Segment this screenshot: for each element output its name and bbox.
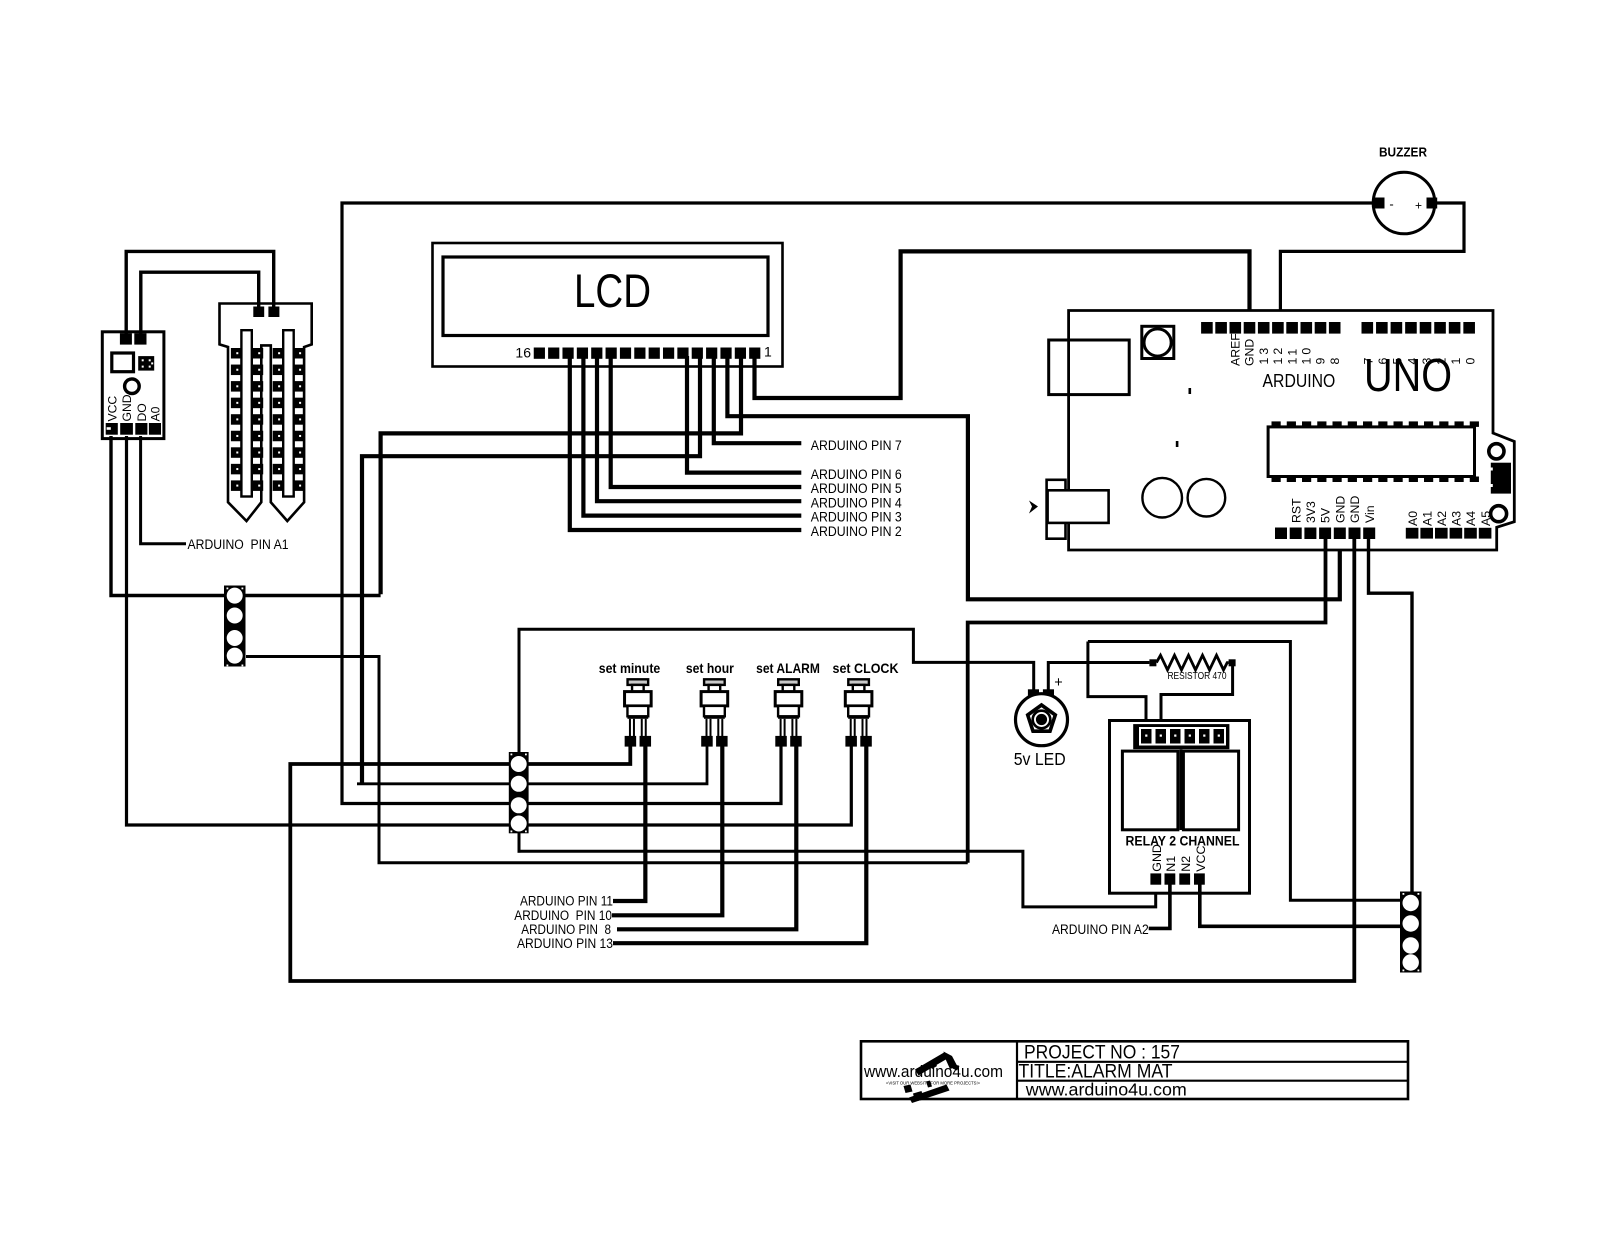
mounting hole top — [1489, 444, 1504, 459]
wire LCD pin6 to ARDUINO PIN 6 label — [687, 356, 801, 473]
pin strip S2 — [509, 752, 529, 833]
board marks — [1176, 388, 1191, 447]
LCD module — [433, 243, 783, 367]
push button SW4 set CLOCK — [833, 660, 899, 747]
wire buzzer minus to set ALARM via strip S2 row3 — [342, 203, 1374, 804]
wire top rail to connector S3 pin1 — [1088, 642, 1401, 901]
LED D1 (5v LED) — [1014, 675, 1068, 769]
wire buzzer plus to Arduino pin 12 — [1280, 203, 1464, 323]
svg-text:16: 16 — [515, 345, 531, 361]
wire buttons box to LED minus — [519, 629, 1034, 852]
digital header 7..0 — [1362, 322, 1478, 365]
wire module VCC to strip S1 row1 / 5V net — [111, 436, 381, 596]
svg-text:13: 13 — [1257, 345, 1271, 365]
svg-text:A4: A4 — [1464, 511, 1478, 526]
svg-text:ARDUINO PIN 8: ARDUINO PIN 8 — [521, 922, 611, 937]
svg-text:A0: A0 — [1406, 511, 1420, 526]
svg-text:ARDUINO PIN 10: ARDUINO PIN 10 — [514, 908, 612, 923]
svg-text:N1: N1 — [1164, 856, 1178, 872]
svg-text:8: 8 — [1328, 358, 1342, 365]
mounting hole bottom — [1491, 506, 1507, 522]
svg-text:«VISIT OUR WEBSITE FOR MORE PR: «VISIT OUR WEBSITE FOR MORE PROJECTS!» — [886, 1080, 981, 1085]
wire Arduino 5V down-left — [968, 538, 1326, 863]
svg-text:11: 11 — [1285, 346, 1299, 365]
svg-text:Vin: Vin — [1363, 505, 1377, 523]
svg-text:ARDUINO PIN A1: ARDUINO PIN A1 — [188, 537, 289, 552]
svg-text:VCC: VCC — [1194, 845, 1208, 871]
ICSP connector — [1490, 463, 1511, 494]
svg-text:ARDUINO PIN 13: ARDUINO PIN 13 — [517, 936, 613, 951]
wire LCD pin11 to ARDUINO PIN 5 label — [611, 356, 802, 487]
svg-text:ARDUINO PIN 11: ARDUINO PIN 11 — [520, 894, 613, 909]
wire LCD pin13 to ARDUINO PIN 3 label — [583, 356, 801, 516]
push button SW3 set ALARM — [756, 660, 820, 747]
svg-text:A2: A2 — [1435, 511, 1449, 526]
svg-text:ARDUINO PIN 6: ARDUINO PIN 6 — [811, 467, 902, 482]
svg-text:GND: GND — [1243, 339, 1257, 366]
wire LED plus to resistor — [1048, 663, 1149, 691]
svg-text:9: 9 — [1314, 358, 1328, 365]
wire module GND to strip S2 row4 and set CLOCK button — [127, 436, 852, 825]
USB connector — [1049, 340, 1130, 395]
svg-text:RST: RST — [1289, 498, 1303, 523]
wire strip S1 row4 to 5V drop — [246, 657, 968, 863]
wire resistor loop / relay in1 feed — [1088, 642, 1146, 728]
svg-text:-: - — [1389, 197, 1393, 212]
svg-text:ARDUINO PIN A2: ARDUINO PIN A2 — [1052, 922, 1149, 937]
wire LCD pin12 to ARDUINO PIN 4 label — [597, 356, 801, 501]
svg-text:ARDUINO PIN 3: ARDUINO PIN 3 — [811, 510, 902, 525]
reset button — [1142, 326, 1174, 358]
svg-text:BUZZER: BUZZER — [1379, 146, 1427, 160]
title block — [861, 1041, 1408, 1103]
pin strip S3 — [1400, 892, 1422, 973]
svg-text:ARDUINO PIN 2: ARDUINO PIN 2 — [811, 524, 902, 539]
analog header A0..A5 — [1406, 511, 1493, 539]
svg-text:GND: GND — [1348, 496, 1362, 523]
svg-text:VCC: VCC — [105, 396, 119, 422]
wire module pad1 to probe right pad — [126, 251, 274, 334]
svg-text:1: 1 — [764, 344, 772, 360]
svg-text:www.arduino4u.com: www.arduino4u.com — [1025, 1080, 1187, 1100]
svg-text:ARDUINO PIN 5: ARDUINO PIN 5 — [811, 481, 902, 496]
wire set minute to ARDUINO PIN 11 — [613, 746, 645, 901]
wire Arduino GND2 to bottom bus — [290, 538, 1354, 981]
svg-text:GND: GND — [120, 394, 134, 421]
IC U3 (ATmega) — [1268, 421, 1479, 482]
wire LCD pin1 to Arduino GND (top) — [755, 251, 1250, 398]
wire set CLOCK to ARDUINO PIN 13 — [613, 746, 866, 943]
svg-text:ARDUINO PIN 7: ARDUINO PIN 7 — [811, 438, 902, 453]
push button SW2 set hour — [686, 660, 734, 747]
crystal circles — [1142, 478, 1225, 518]
moisture probe (2-prong fork) — [220, 304, 312, 522]
wire LCD pin2 to 5V net (module VCC / strip S1) — [381, 356, 741, 594]
relay module K1 (2 channel) — [1110, 721, 1250, 894]
svg-text:LCD: LCD — [574, 264, 651, 317]
svg-text:A1: A1 — [1420, 511, 1434, 526]
wire set ALARM to ARDUINO PIN 8 — [617, 746, 796, 929]
wire relay N1 to ARDUINO PIN A2 label — [1149, 884, 1170, 928]
buzzer BZ1 — [1373, 146, 1437, 234]
svg-text:+: + — [1415, 199, 1422, 213]
svg-text:ARDUINO: ARDUINO — [1263, 371, 1336, 391]
svg-text:RELAY 2 CHANNEL: RELAY 2 CHANNEL — [1126, 833, 1240, 848]
power jack — [1029, 480, 1109, 539]
svg-text:A0: A0 — [149, 406, 163, 421]
Arduino UNO board outline — [1069, 311, 1515, 551]
wire LCD pin3 to Arduino GND pin — [727, 356, 1339, 599]
wire bus to relay GND — [518, 851, 1156, 907]
svg-text:GND: GND — [1333, 496, 1347, 523]
svg-text:set ALARM: set ALARM — [756, 660, 820, 676]
svg-text:3V3: 3V3 — [1304, 501, 1318, 523]
svg-text:DO: DO — [135, 403, 149, 421]
svg-text:N2: N2 — [1179, 856, 1193, 872]
svg-text:5V: 5V — [1319, 507, 1333, 523]
svg-text:A5: A5 — [1479, 511, 1493, 526]
wire resistor right to relay in2 — [1161, 664, 1233, 727]
svg-text:UNO: UNO — [1364, 349, 1452, 401]
svg-text:PROJECT NO : 157: PROJECT NO : 157 — [1024, 1043, 1180, 1064]
svg-text:10: 10 — [1300, 345, 1314, 365]
LCD pin header 16..1 — [534, 348, 761, 359]
wire LCD pin4 to ARDUINO PIN 7 label — [714, 356, 802, 443]
wire relay VCC to connector S3 pin2 — [1200, 884, 1401, 926]
resistor R1 470 — [1149, 655, 1235, 682]
wire module DO to ARDUINO PIN A1 label — [141, 436, 186, 544]
push button SW1 set minute — [599, 660, 661, 747]
pin strip S1 — [224, 586, 246, 667]
svg-text:set hour: set hour — [686, 660, 734, 676]
svg-text:set minute: set minute — [599, 660, 661, 676]
svg-text:12: 12 — [1271, 345, 1285, 365]
wire LCD pin5 to strip S2 row2 — [362, 356, 700, 784]
svg-text:5v LED: 5v LED — [1014, 749, 1066, 769]
svg-text:set CLOCK: set CLOCK — [833, 660, 899, 676]
svg-text:0: 0 — [1463, 358, 1477, 365]
wire strip S2 row2 to set hour — [357, 746, 707, 784]
svg-text:AREF: AREF — [1229, 333, 1243, 366]
power header RST..Vin — [1275, 496, 1377, 539]
sensor module U2 (moisture comparator board) — [102, 332, 164, 439]
wire set hour to ARDUINO PIN 10 — [612, 746, 722, 915]
wire Arduino Vin to connector S3 — [1369, 538, 1413, 893]
svg-text:ARDUINO PIN 4: ARDUINO PIN 4 — [811, 495, 902, 510]
svg-text:RESISTOR 470: RESISTOR 470 — [1168, 670, 1227, 682]
svg-text:+: + — [1054, 675, 1062, 691]
digital header AREF..8 — [1201, 322, 1342, 366]
svg-text:A3: A3 — [1450, 511, 1464, 526]
svg-text:GND: GND — [1150, 844, 1164, 872]
wire LCD pin14 to ARDUINO PIN 2 label — [570, 356, 802, 530]
wire module pad2 to probe left pad — [141, 272, 259, 334]
